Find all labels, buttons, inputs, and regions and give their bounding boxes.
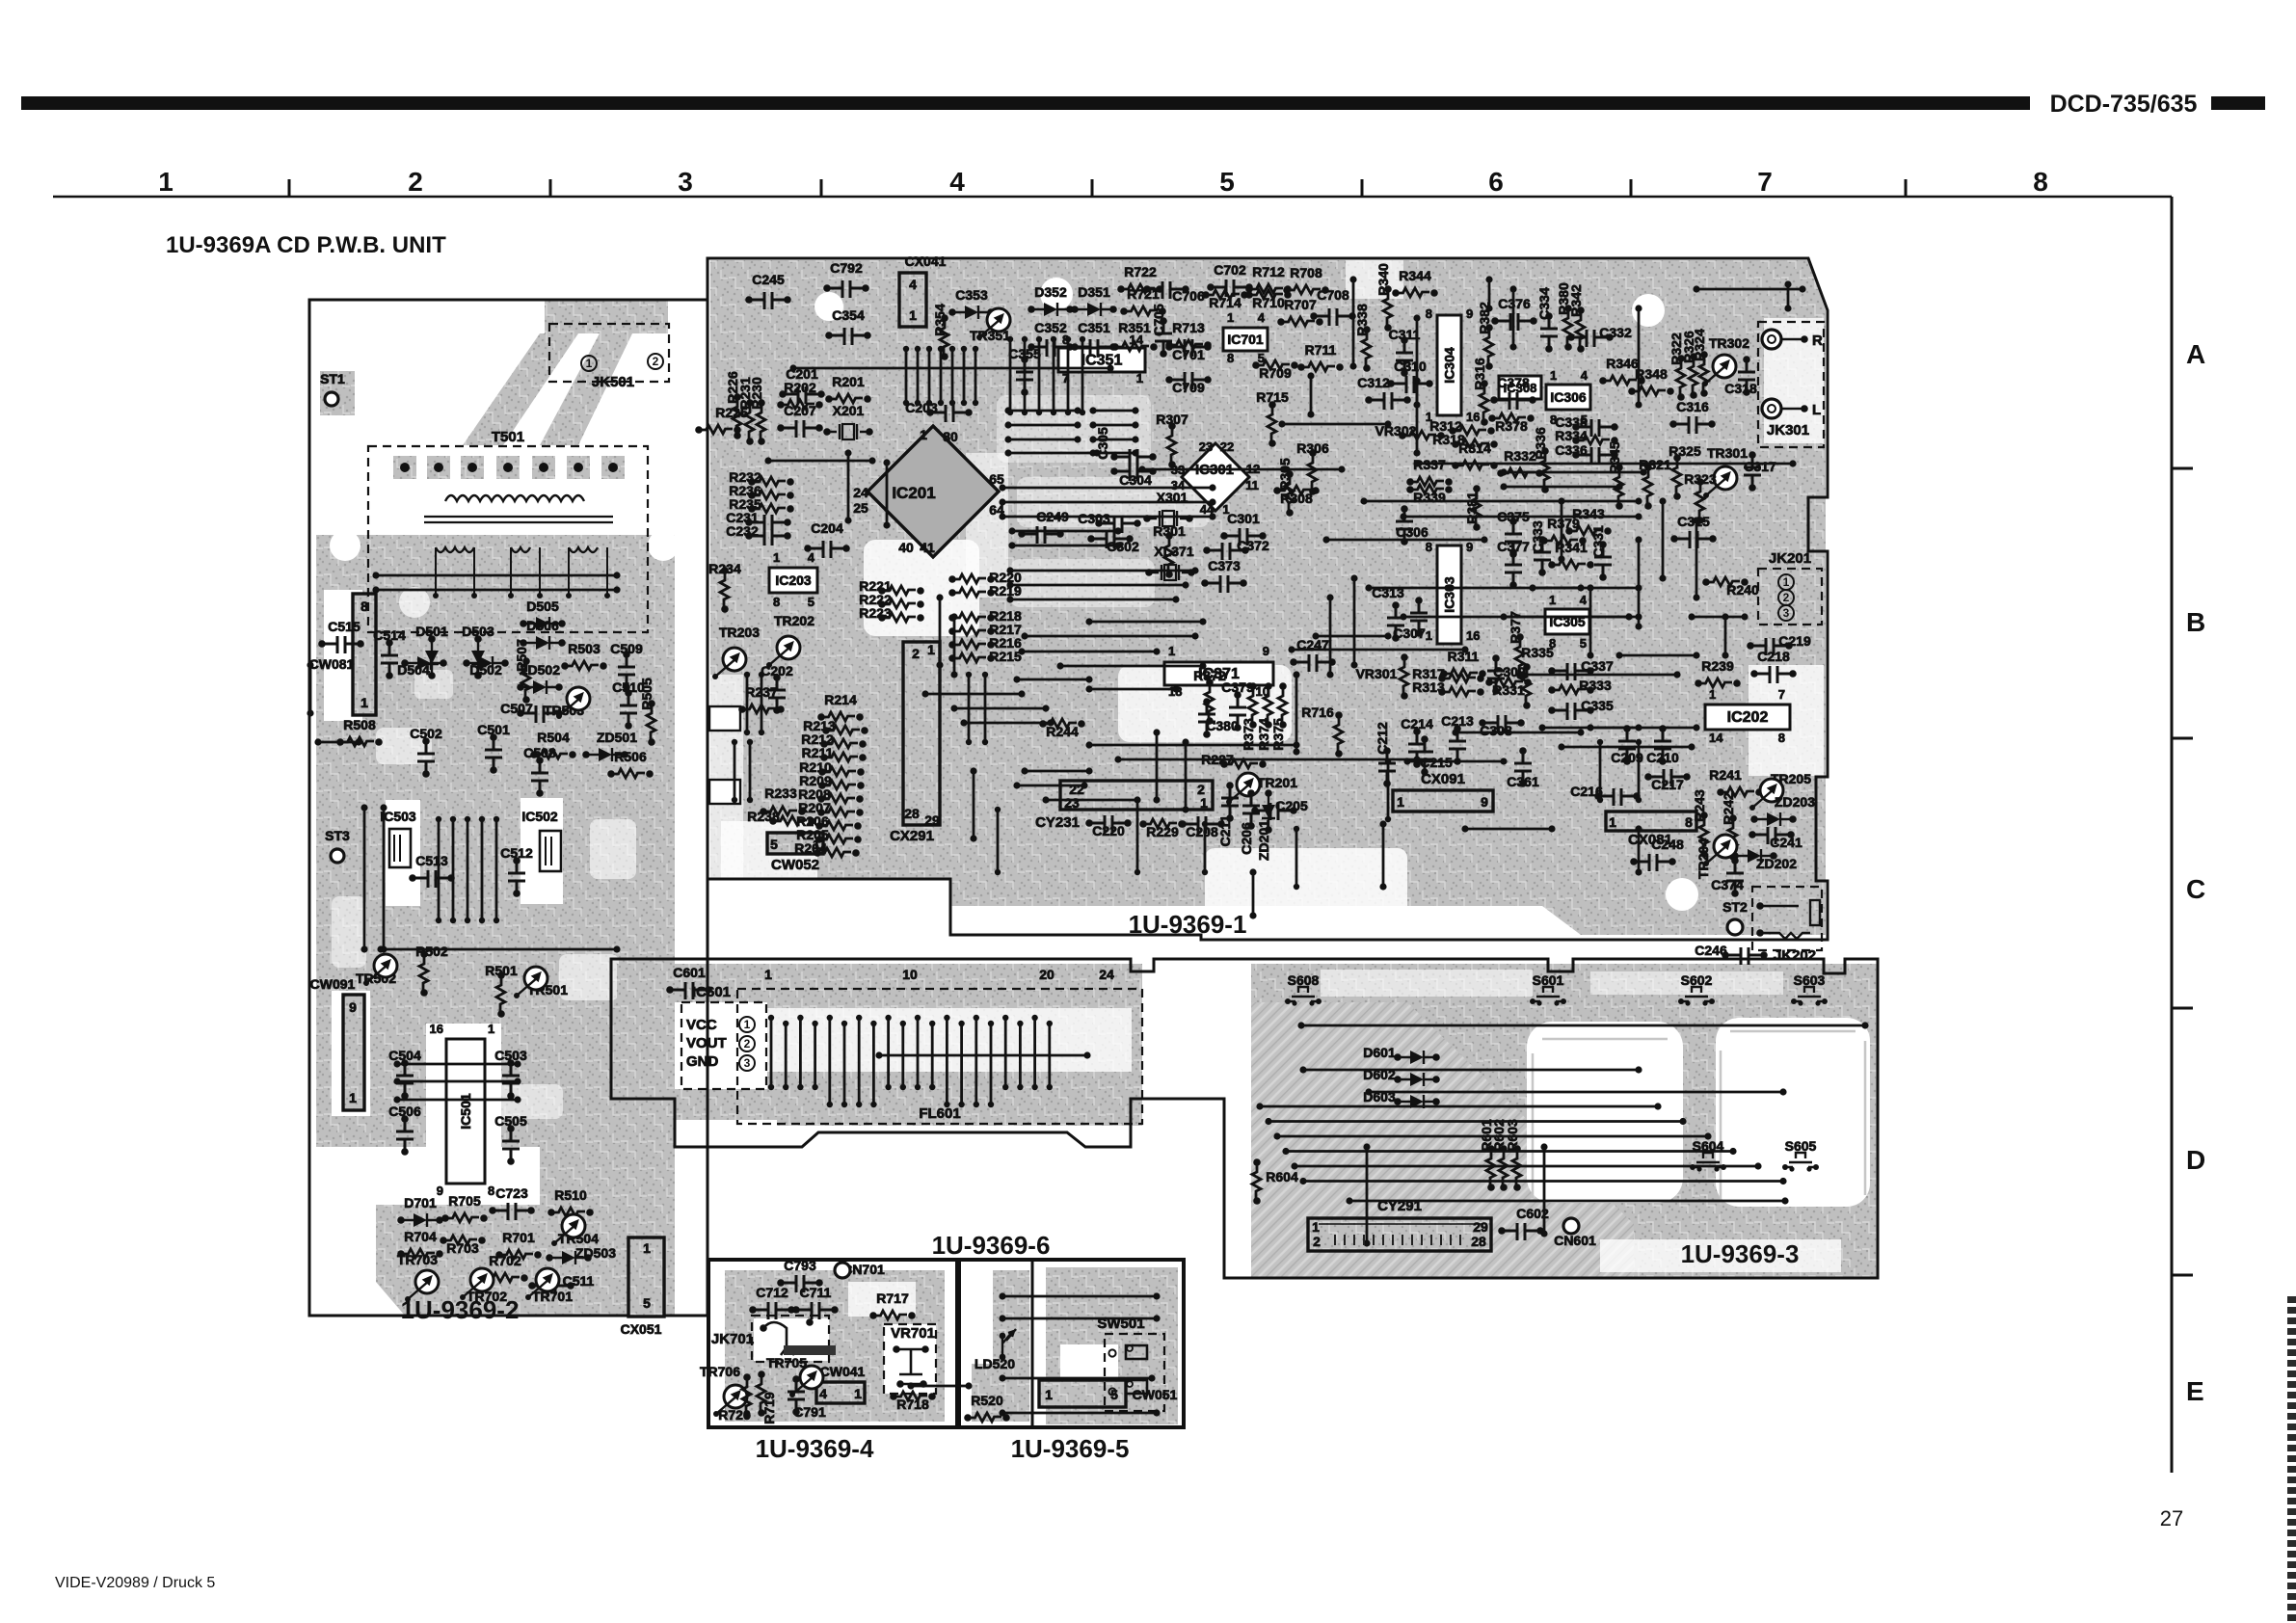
- wire: [1688, 613, 1695, 620]
- svg-text:R710: R710: [1252, 295, 1285, 310]
- JK201 pins: [1778, 574, 1794, 590]
- wire: [1282, 1148, 1289, 1155]
- IC IC203: [769, 568, 817, 593]
- svg-text:9: 9: [1263, 644, 1269, 658]
- wire: [999, 1409, 1005, 1416]
- pin row FL601: [915, 1015, 921, 1021]
- svg-text:CX041: CX041: [905, 253, 947, 269]
- wire: [1538, 724, 1545, 731]
- svg-text:1U-9369-4: 1U-9369-4: [756, 1434, 874, 1463]
- svg-text:8: 8: [1778, 731, 1785, 745]
- svg-text:ZD501: ZD501: [597, 730, 637, 745]
- connector CW052: [767, 833, 823, 854]
- wire: [1089, 436, 1096, 442]
- test point ST3 pad: [331, 849, 344, 863]
- svg-text:C711: C711: [800, 1285, 832, 1300]
- svg-text:C207: C207: [784, 403, 816, 418]
- board outline 1U-9369-4: [708, 1260, 957, 1427]
- wire: [1153, 729, 1160, 735]
- svg-text:R702: R702: [489, 1253, 521, 1268]
- svg-text:R241: R241: [1709, 767, 1742, 783]
- wire: [1278, 420, 1285, 427]
- svg-text:IC601: IC601: [692, 984, 731, 1000]
- wire: [1587, 584, 1593, 591]
- wire: [1363, 1143, 1370, 1150]
- svg-text:4: 4: [1258, 310, 1266, 325]
- IC IC371: [1164, 662, 1273, 685]
- svg-text:R709: R709: [1259, 365, 1292, 381]
- svg-text:D601: D601: [1363, 1045, 1396, 1060]
- wire: [393, 1078, 400, 1084]
- svg-text:1: 1: [1426, 628, 1432, 643]
- svg-text:C316: C316: [1676, 399, 1709, 414]
- svg-text:IC503: IC503: [380, 809, 416, 824]
- svg-text:R201: R201: [832, 374, 865, 389]
- wire: [1008, 527, 1015, 534]
- svg-text:5: 5: [643, 1295, 651, 1311]
- right ruler line: [2171, 197, 2174, 1473]
- svg-text:16: 16: [430, 1022, 443, 1036]
- IC IC305: [1545, 609, 1589, 634]
- connector JK501 (dashed): [549, 324, 669, 382]
- svg-text:1: 1: [1227, 310, 1234, 325]
- connector CW051: [1039, 1380, 1126, 1407]
- wire: [999, 1374, 1005, 1381]
- svg-text:4: 4: [1581, 368, 1589, 383]
- pin row: [744, 672, 750, 678]
- wire: [1018, 648, 1025, 654]
- svg-text:2: 2: [744, 1037, 751, 1051]
- wire: [1500, 613, 1507, 620]
- wire: [1256, 1103, 1263, 1109]
- svg-text:9: 9: [1466, 540, 1473, 554]
- svg-text:C304: C304: [1119, 472, 1152, 488]
- wire: [1273, 1132, 1280, 1139]
- svg-text:JK202: JK202: [1774, 947, 1816, 964]
- connector CN701 pad: [835, 1263, 850, 1278]
- wire: [1365, 1088, 1372, 1095]
- pin row: [465, 816, 470, 822]
- svg-text:80: 80: [943, 429, 958, 444]
- svg-text:28: 28: [904, 806, 920, 821]
- pin row: [995, 807, 1001, 812]
- svg-text:29: 29: [924, 812, 940, 828]
- connector CX041: [899, 273, 926, 327]
- svg-text:C208: C208: [1186, 824, 1218, 839]
- wire: [1089, 407, 1096, 413]
- svg-text:C318: C318: [1724, 381, 1757, 396]
- wire: [1006, 567, 1013, 573]
- svg-text:1: 1: [920, 427, 927, 442]
- trimmer VR701 symbol: [896, 1349, 925, 1384]
- svg-text:R722: R722: [1124, 264, 1157, 279]
- IC IC351: [1058, 348, 1145, 372]
- svg-text:C515: C515: [328, 619, 360, 634]
- board outline 1U-9369-5: [959, 1260, 1184, 1427]
- svg-text:24: 24: [853, 485, 868, 500]
- connector CW091: [343, 995, 364, 1110]
- svg-text:R239: R239: [1701, 658, 1734, 674]
- svg-text:R708: R708: [1290, 265, 1322, 280]
- pin row: [747, 739, 753, 745]
- svg-text:14: 14: [1709, 731, 1723, 745]
- svg-text:27: 27: [2160, 1506, 2183, 1530]
- board outline 1U-9369-3: [611, 959, 1878, 1278]
- svg-text:TR201: TR201: [1257, 775, 1297, 790]
- svg-text:C306: C306: [1396, 524, 1428, 540]
- wire: [1461, 825, 1468, 832]
- svg-text:R344: R344: [1399, 268, 1431, 283]
- svg-text:S601: S601: [1533, 972, 1564, 988]
- IC IC502 box: [540, 831, 561, 871]
- jumper JK701 wire: [763, 1322, 794, 1355]
- connector CX091: [1393, 790, 1493, 811]
- pin row: [973, 346, 978, 352]
- wire: [1635, 305, 1642, 311]
- svg-text:R506: R506: [614, 749, 647, 764]
- svg-text:X201: X201: [833, 403, 865, 418]
- svg-text:FL601: FL601: [919, 1105, 960, 1122]
- svg-text:C701: C701: [1172, 347, 1205, 362]
- svg-text:CW081: CW081: [309, 656, 355, 672]
- pin row: [1080, 336, 1085, 342]
- wire: [1693, 285, 1699, 292]
- connector VR701 (dashed): [884, 1324, 936, 1394]
- wire: [1085, 618, 1092, 625]
- connector CX081: [1606, 811, 1696, 831]
- pin row: [1007, 336, 1013, 342]
- wire: [1350, 574, 1357, 581]
- connector CW041: [816, 1382, 865, 1403]
- svg-text:ST1: ST1: [320, 371, 345, 386]
- svg-text:DCD-735/635: DCD-735/635: [2050, 91, 2198, 118]
- pin row FL601: [1002, 1015, 1008, 1021]
- pin row FL601: [856, 1015, 862, 1021]
- svg-text:TR202: TR202: [774, 613, 814, 628]
- IC IC308: [1499, 376, 1541, 399]
- wire: [1615, 652, 1622, 658]
- pin row FL601: [841, 1021, 847, 1026]
- wire: [999, 1292, 1005, 1299]
- pin row FL601: [900, 1021, 906, 1026]
- IC IC503 box: [389, 829, 411, 867]
- svg-text:20: 20: [1039, 967, 1055, 982]
- pin row FL601: [1017, 1021, 1023, 1026]
- svg-text:R520: R520: [971, 1393, 1003, 1408]
- IC IC303: [1437, 545, 1461, 644]
- wire: [1299, 1178, 1306, 1184]
- svg-text:3: 3: [1783, 606, 1790, 620]
- connector CX051: [628, 1237, 664, 1317]
- pin row: [732, 739, 737, 745]
- wire: [1322, 536, 1329, 543]
- pin row: [759, 672, 764, 678]
- svg-text:C723: C723: [495, 1185, 528, 1201]
- pin row: [982, 672, 988, 678]
- wire: [950, 705, 957, 711]
- svg-text:1: 1: [1549, 593, 1556, 607]
- svg-text:TR301: TR301: [1707, 445, 1748, 461]
- svg-text:8: 8: [1426, 306, 1432, 321]
- wire: [1004, 421, 1011, 428]
- wire: [1509, 285, 1516, 292]
- pin row: [938, 346, 944, 352]
- svg-text:5: 5: [1580, 636, 1587, 651]
- svg-text:ZD502: ZD502: [520, 662, 560, 678]
- transformer T501 windings: [445, 495, 584, 501]
- svg-text:IC701: IC701: [1227, 332, 1264, 347]
- svg-text:3: 3: [744, 1056, 751, 1070]
- wire: [1326, 594, 1333, 600]
- wire: [380, 804, 387, 811]
- IC IC301 (diamond orientation): [1182, 443, 1249, 511]
- pin row: [1636, 739, 1642, 745]
- board1 left edge tabs: [709, 706, 740, 731]
- svg-text:R214: R214: [824, 692, 857, 707]
- svg-text:1U-9369-1: 1U-9369-1: [1129, 910, 1247, 939]
- JK501 pins: [581, 356, 597, 371]
- svg-text:T501: T501: [492, 429, 524, 445]
- svg-text:IC351: IC351: [1081, 353, 1123, 369]
- svg-text:R379: R379: [1547, 516, 1580, 531]
- pin row: [1385, 758, 1391, 764]
- svg-text:IC304: IC304: [1442, 347, 1457, 384]
- wire: [844, 449, 851, 456]
- wire: [1138, 466, 1145, 472]
- svg-text:R332: R332: [1504, 448, 1536, 464]
- svg-text:ZD202: ZD202: [1756, 856, 1797, 871]
- pin row: [949, 346, 955, 352]
- svg-text:R712: R712: [1252, 264, 1285, 279]
- svg-text:4: 4: [808, 550, 815, 565]
- svg-text:R718: R718: [896, 1397, 929, 1412]
- svg-text:C352: C352: [1034, 320, 1067, 335]
- wire: [999, 498, 1005, 505]
- IC IC304: [1437, 315, 1461, 415]
- svg-text:S608: S608: [1288, 972, 1320, 988]
- svg-text:8: 8: [488, 1184, 494, 1198]
- svg-text:16: 16: [1466, 410, 1480, 424]
- IC IC306: [1546, 385, 1590, 410]
- wire: [1365, 584, 1372, 591]
- pin row: [961, 346, 967, 352]
- svg-text:1: 1: [1200, 795, 1208, 811]
- svg-text:1: 1: [773, 550, 780, 565]
- svg-text:LD520: LD520: [974, 1356, 1015, 1371]
- grid tick: [288, 179, 291, 197]
- pin row: [479, 816, 485, 822]
- grid tick: [820, 179, 823, 197]
- trace from JK501 to transformer: [463, 333, 578, 445]
- svg-text:S605: S605: [1785, 1138, 1817, 1154]
- svg-text:E: E: [2186, 1376, 2204, 1406]
- wire: [307, 661, 313, 668]
- wire: [1056, 662, 1063, 669]
- wire: [921, 690, 928, 697]
- pin row: [903, 346, 909, 352]
- connector JK701 (dashed): [752, 1316, 829, 1362]
- svg-text:8: 8: [773, 595, 780, 609]
- svg-text:IC303: IC303: [1442, 576, 1457, 613]
- jack R output: [1762, 330, 1781, 349]
- pin row FL601: [885, 1015, 891, 1021]
- svg-text:L: L: [1812, 402, 1821, 418]
- test point ST1 pad: [325, 392, 338, 406]
- pin row: [1135, 797, 1140, 803]
- wire: [360, 804, 367, 811]
- svg-text:4: 4: [1580, 593, 1588, 607]
- scan edge strip: [2287, 1296, 2296, 1303]
- svg-text:C793: C793: [784, 1258, 816, 1273]
- svg-text:TR703: TR703: [397, 1252, 438, 1267]
- svg-text:40: 40: [898, 540, 914, 555]
- svg-text:1: 1: [1609, 814, 1616, 830]
- svg-text:C218: C218: [1757, 649, 1790, 664]
- svg-text:2: 2: [1783, 591, 1790, 604]
- svg-text:2: 2: [408, 167, 423, 197]
- connector JK301 (dashed): [1758, 322, 1824, 447]
- svg-text:16: 16: [1466, 628, 1480, 643]
- wire: [950, 613, 957, 620]
- grid tick: [1905, 179, 1908, 197]
- wire: [1558, 743, 1564, 750]
- svg-text:R378: R378: [1495, 418, 1528, 434]
- PCB ground plane board3 right section: [1251, 964, 1878, 1278]
- svg-text:IC202: IC202: [1727, 709, 1769, 726]
- svg-text:R351: R351: [1118, 320, 1151, 335]
- connector CY291: [1308, 1218, 1491, 1251]
- svg-text:R717: R717: [876, 1290, 909, 1306]
- svg-text:R346: R346: [1606, 356, 1639, 371]
- switch S605 symbol: [1782, 1164, 1788, 1170]
- wire: [1379, 820, 1386, 827]
- wire: [1297, 1022, 1304, 1028]
- wire: [1307, 372, 1314, 379]
- svg-text:R604: R604: [1266, 1169, 1298, 1184]
- svg-text:D352: D352: [1034, 284, 1067, 300]
- pin row: [1051, 336, 1056, 342]
- wire: [999, 1315, 1005, 1321]
- svg-text:CW091: CW091: [310, 976, 356, 992]
- PCB ground plane board 1U-9369-3 left arm: [617, 964, 777, 1120]
- svg-text:CX051: CX051: [621, 1321, 662, 1337]
- svg-text:C220: C220: [1092, 823, 1125, 838]
- svg-text:C312: C312: [1357, 375, 1390, 390]
- grid tick: [1091, 179, 1094, 197]
- svg-text:R308: R308: [1280, 491, 1313, 506]
- wire: [1413, 377, 1420, 384]
- grid tick: [2172, 737, 2193, 740]
- svg-text:5: 5: [808, 595, 814, 609]
- svg-text:VR701: VR701: [891, 1325, 935, 1342]
- svg-text:10: 10: [902, 967, 918, 982]
- pin row: [926, 346, 932, 352]
- wire: [1413, 460, 1420, 466]
- svg-text:C: C: [2186, 874, 2205, 904]
- svg-text:VR301: VR301: [1356, 666, 1398, 681]
- svg-text:1: 1: [1168, 644, 1175, 658]
- connector JK201 (dashed): [1758, 569, 1822, 625]
- wire: [999, 484, 1005, 491]
- svg-text:1: 1: [1312, 1219, 1320, 1235]
- svg-text:VCC: VCC: [686, 1017, 717, 1033]
- svg-text:8: 8: [1426, 540, 1432, 554]
- svg-text:1: 1: [1397, 794, 1404, 810]
- wire: [1013, 676, 1020, 682]
- grid tick: [1630, 179, 1633, 197]
- svg-text:ZD203: ZD203: [1775, 794, 1815, 810]
- svg-text:B: B: [2186, 607, 2205, 637]
- grid tick: [549, 179, 552, 197]
- pin row FL601: [812, 1021, 817, 1026]
- wire: [1004, 449, 1011, 456]
- wire: [1013, 782, 1020, 788]
- svg-text:S603: S603: [1794, 972, 1826, 988]
- switch S608 symbol: [1285, 998, 1291, 1004]
- svg-text:C310: C310: [1394, 359, 1427, 374]
- wire: [377, 945, 384, 952]
- connector IC601 (dashed): [681, 1002, 766, 1089]
- pin row FL601: [870, 1021, 876, 1026]
- svg-text:1: 1: [927, 642, 935, 657]
- svg-text:1: 1: [909, 307, 917, 323]
- wire: [1540, 1143, 1547, 1150]
- svg-text:1: 1: [1709, 687, 1716, 702]
- svg-text:C245: C245: [752, 272, 785, 287]
- pin row FL601: [929, 1021, 935, 1026]
- pin row: [494, 816, 499, 822]
- wire: [1360, 497, 1367, 504]
- svg-text:1U-9369-6: 1U-9369-6: [932, 1231, 1051, 1260]
- svg-text:R504: R504: [537, 730, 570, 745]
- svg-text:R339: R339: [1413, 490, 1446, 505]
- wire: [1008, 542, 1015, 548]
- svg-text:CY231: CY231: [1035, 814, 1080, 831]
- svg-text:JK501: JK501: [592, 374, 634, 390]
- svg-text:C513: C513: [415, 853, 448, 868]
- wire: [1288, 646, 1295, 652]
- board outline 1U-9369-2: [309, 300, 707, 1316]
- wire: [1299, 1066, 1306, 1073]
- wire: [1346, 1197, 1352, 1204]
- svg-text:C217: C217: [1651, 777, 1684, 792]
- pin row: [1065, 336, 1071, 342]
- wire: [314, 738, 321, 745]
- wire: [764, 457, 771, 464]
- header rule bar left: [21, 96, 2030, 110]
- svg-text:R508: R508: [343, 717, 376, 732]
- svg-text:6: 6: [1488, 167, 1504, 197]
- svg-text:R503: R503: [568, 641, 601, 656]
- svg-text:D351: D351: [1078, 284, 1110, 300]
- wire: [1529, 584, 1535, 591]
- wire: [1293, 671, 1299, 678]
- svg-text:R701: R701: [502, 1230, 535, 1245]
- svg-text:R225: R225: [715, 405, 748, 420]
- LED LD520 symbol: [1002, 1329, 1016, 1357]
- wire: [1400, 513, 1406, 519]
- svg-text:1: 1: [1136, 371, 1143, 386]
- svg-text:ST3: ST3: [325, 828, 350, 843]
- wire: [1089, 421, 1096, 428]
- svg-text:4: 4: [949, 167, 965, 197]
- svg-text:5: 5: [770, 837, 778, 852]
- svg-text:C709: C709: [1172, 380, 1205, 395]
- wire: [999, 513, 1005, 519]
- svg-text:VIDE-V20989 / Druck 5: VIDE-V20989 / Druck 5: [55, 1575, 215, 1591]
- svg-text:1U-9369-3: 1U-9369-3: [1681, 1239, 1800, 1268]
- svg-text:IC502: IC502: [521, 809, 558, 824]
